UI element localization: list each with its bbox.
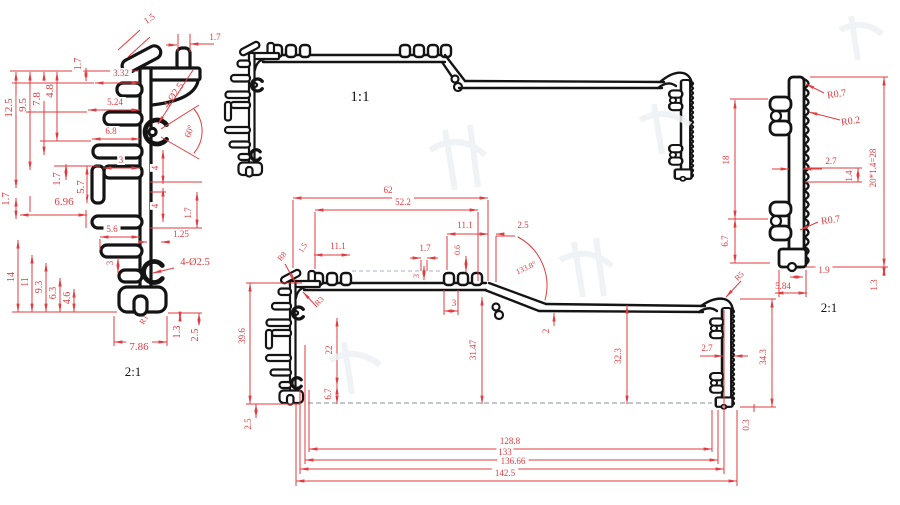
svg-text:2.7: 2.7 [825,156,837,166]
svg-text:6.8: 6.8 [105,126,117,136]
svg-text:6.96: 6.96 [54,196,74,208]
svg-text:52.2: 52.2 [395,197,411,207]
svg-text:0.6: 0.6 [453,245,462,255]
svg-text:1.9: 1.9 [818,265,830,275]
svg-text:4.8: 4.8 [44,84,56,98]
svg-text:2:1: 2:1 [125,364,142,379]
svg-text:2.5: 2.5 [517,220,529,230]
svg-text:9.3: 9.3 [34,281,45,294]
svg-text:1.7: 1.7 [209,32,221,42]
svg-text:3.32: 3.32 [113,68,129,78]
svg-text:3: 3 [105,260,115,265]
svg-text:5.84: 5.84 [775,281,791,291]
svg-text:6.7: 6.7 [720,235,730,247]
svg-text:128.8: 128.8 [500,436,521,446]
svg-text:7.86: 7.86 [129,341,149,353]
svg-text:136.66: 136.66 [501,456,526,466]
svg-text:1.7: 1.7 [0,192,12,206]
svg-text:3: 3 [412,274,421,278]
svg-text:1:1: 1:1 [350,89,369,105]
svg-text:1.7: 1.7 [51,172,63,186]
svg-text:2.5: 2.5 [190,328,201,341]
svg-text:4-Ø2.5: 4-Ø2.5 [180,257,209,268]
svg-text:34.3: 34.3 [758,349,768,365]
svg-text:4: 4 [150,165,160,170]
svg-text:1.3: 1.3 [172,325,183,338]
svg-text:12.5: 12.5 [3,98,15,118]
svg-text:14: 14 [6,272,17,282]
svg-text:39.6: 39.6 [237,328,247,344]
svg-text:31.47: 31.47 [468,339,478,360]
svg-text:4.6: 4.6 [62,292,73,305]
svg-text:1.25: 1.25 [173,229,189,239]
svg-text:20*1.4=28: 20*1.4=28 [868,148,878,187]
svg-text:62: 62 [384,185,393,195]
svg-text:11.1: 11.1 [457,220,472,230]
svg-text:11: 11 [20,277,31,287]
svg-text:6.3: 6.3 [48,287,59,300]
svg-text:18: 18 [721,155,731,165]
svg-text:11.1: 11.1 [330,241,345,251]
svg-text:9.5: 9.5 [17,98,29,112]
svg-text:2.5: 2.5 [243,418,253,430]
svg-text:1.7: 1.7 [419,243,431,253]
svg-text:5.7: 5.7 [75,180,87,194]
svg-text:6.7: 6.7 [323,388,333,400]
svg-text:3: 3 [452,298,457,308]
svg-text:1.7: 1.7 [73,58,84,71]
svg-text:22: 22 [324,346,334,355]
svg-text:7.8: 7.8 [31,92,43,106]
svg-text:3: 3 [119,155,124,165]
svg-text:1.7: 1.7 [183,207,193,219]
svg-text:1.4: 1.4 [844,170,854,182]
svg-text:4: 4 [150,203,160,208]
svg-text:32.3: 32.3 [613,348,623,364]
svg-text:142.5: 142.5 [495,468,516,478]
svg-text:5.6: 5.6 [106,224,118,234]
svg-text:2: 2 [541,329,551,334]
svg-text:0.3: 0.3 [741,419,751,431]
svg-text:5.24: 5.24 [107,97,123,107]
svg-text:1.3: 1.3 [869,279,879,291]
svg-text:2.7: 2.7 [701,343,713,353]
svg-text:2:1: 2:1 [821,300,838,315]
